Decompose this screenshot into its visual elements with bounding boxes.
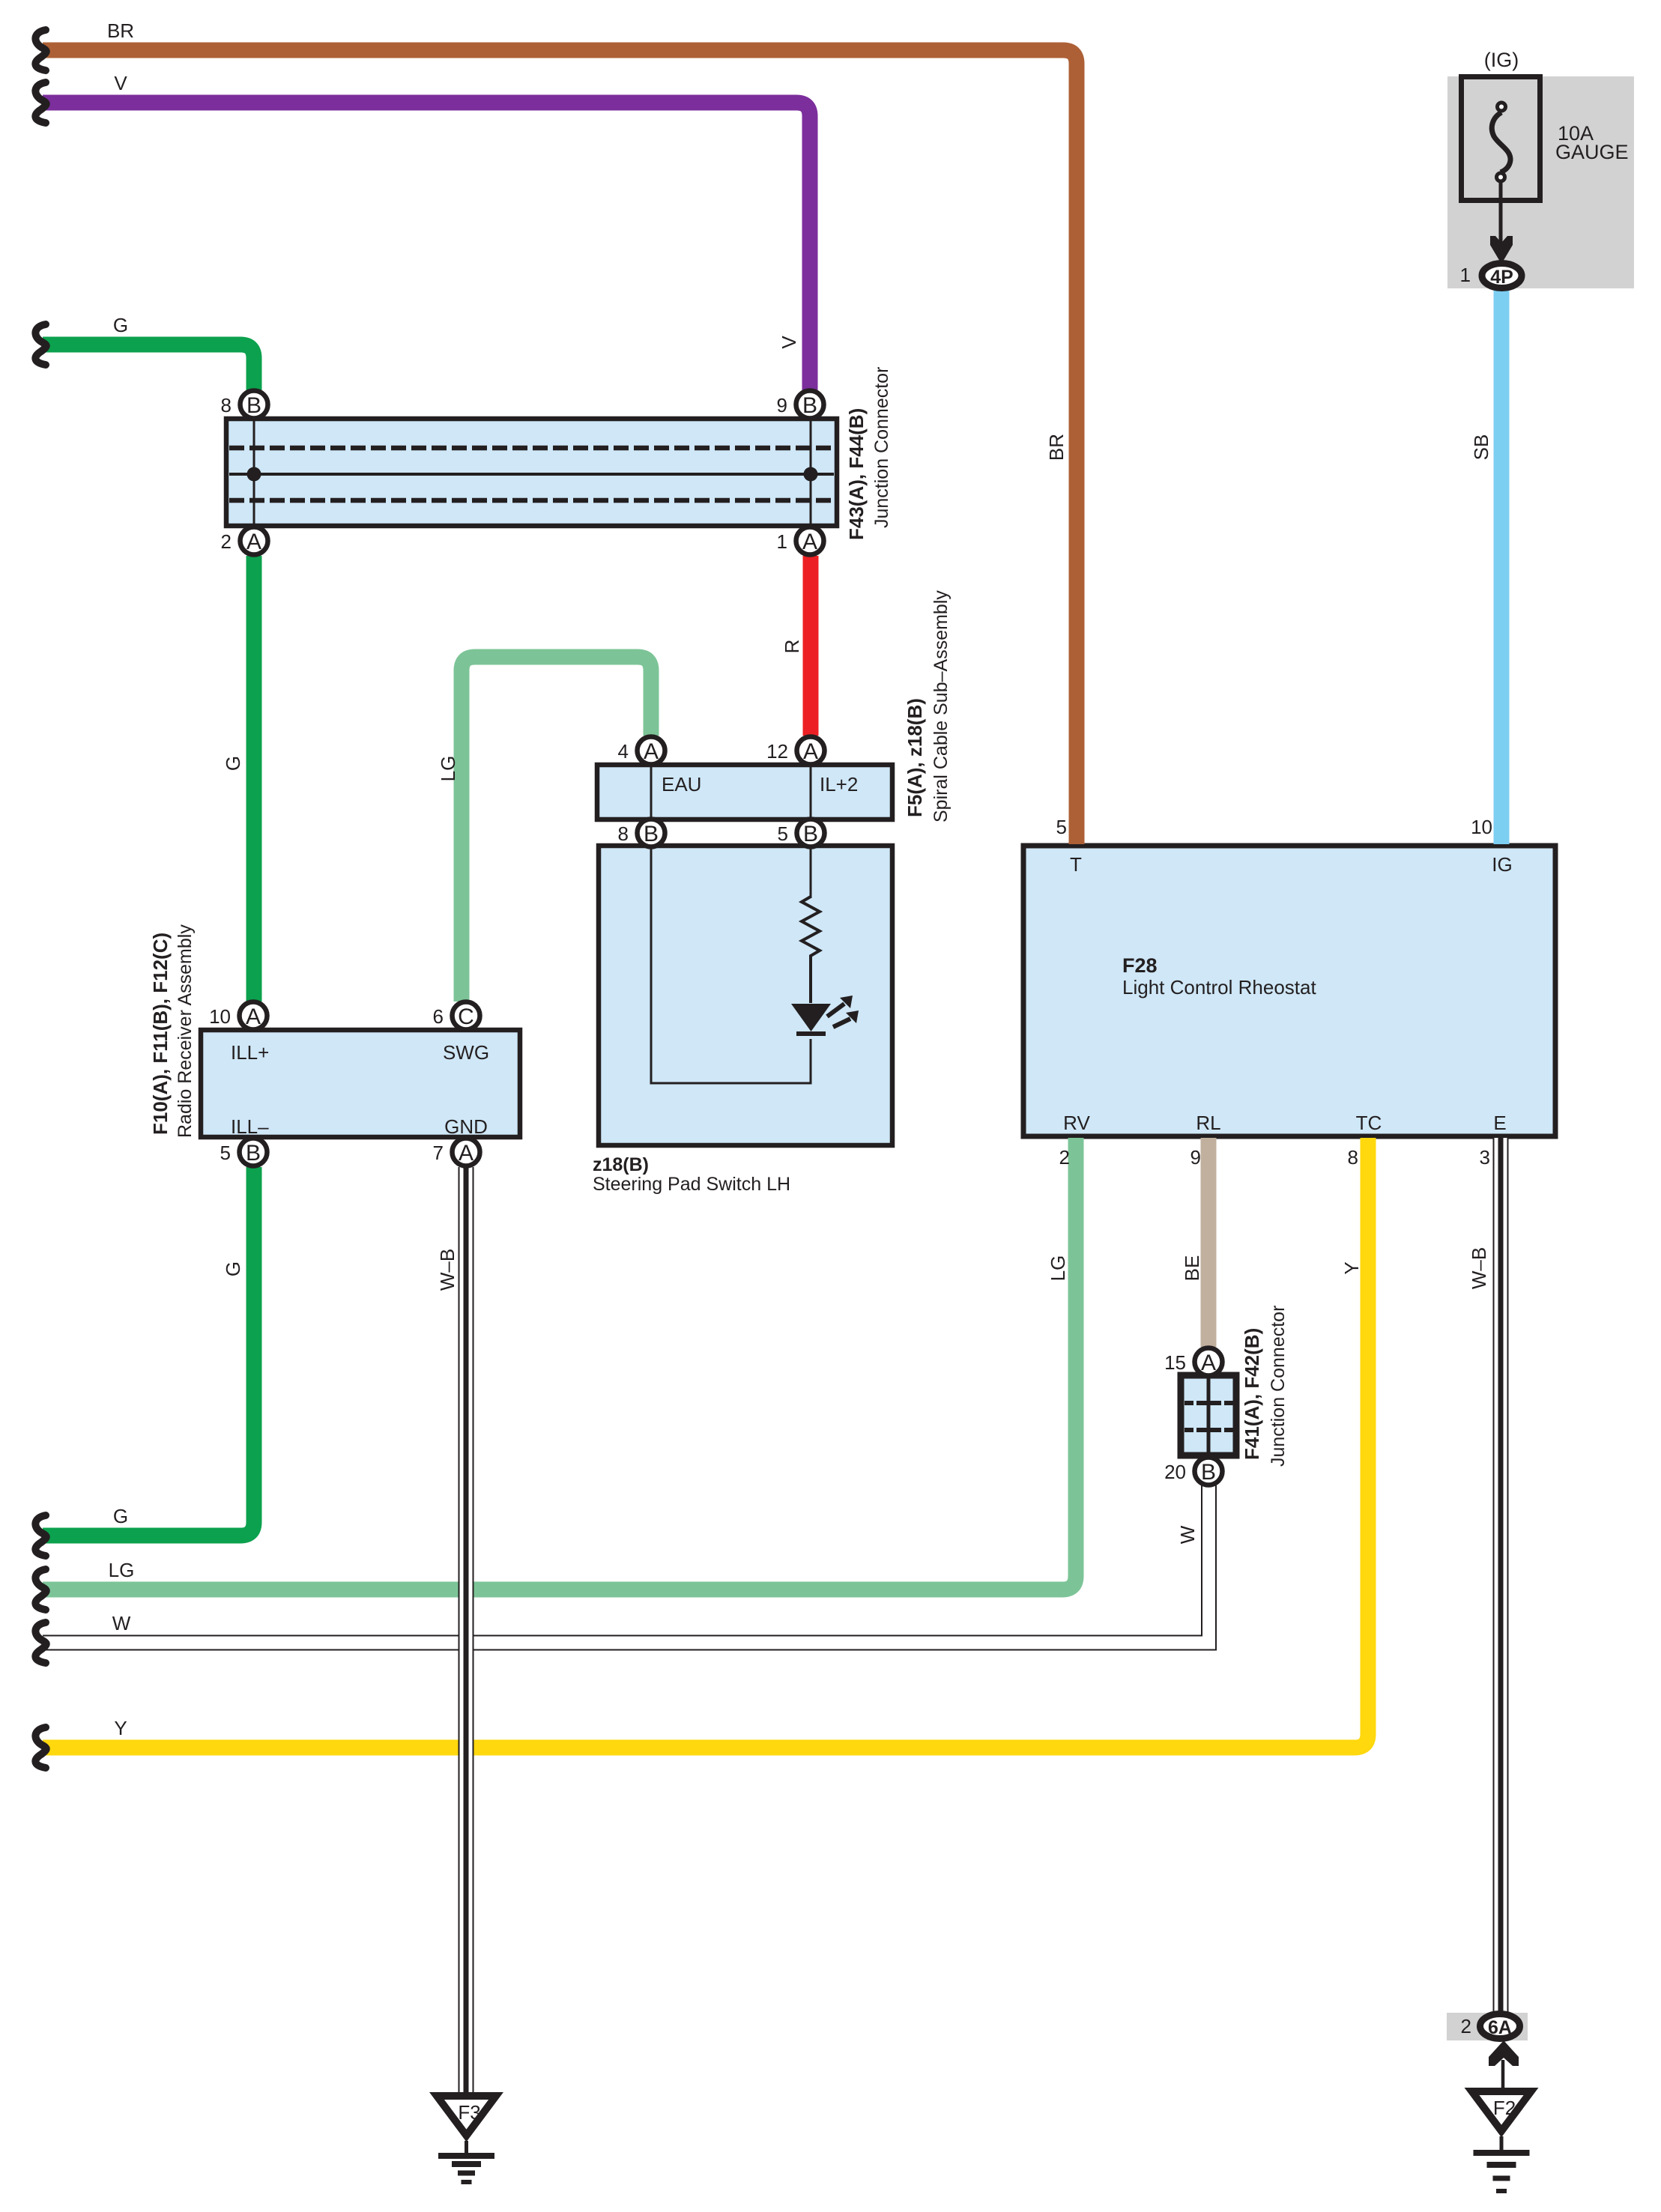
svg-text:B: B [802,393,817,418]
svg-text:20: 20 [1164,1461,1186,1483]
svg-text:IG: IG [1492,853,1512,876]
svg-text:F28: F28 [1122,954,1158,977]
svg-text:IL+2: IL+2 [820,773,858,796]
svg-text:Spiral Cable Sub–Assembly: Spiral Cable Sub–Assembly [931,590,951,822]
svg-text:15: 15 [1164,1351,1186,1374]
svg-text:Y: Y [114,1717,127,1739]
svg-text:6: 6 [433,1005,444,1028]
svg-text:A: A [803,739,818,764]
svg-text:8: 8 [221,394,232,416]
svg-text:W: W [1176,1525,1199,1544]
svg-text:F41(A), F42(B): F41(A), F42(B) [1241,1328,1263,1460]
svg-text:C: C [458,1005,474,1029]
svg-text:B: B [803,822,818,846]
svg-text:Junction Connector: Junction Connector [871,367,892,528]
svg-text:F2: F2 [1493,2097,1516,2119]
svg-text:T: T [1070,853,1082,876]
svg-text:5: 5 [1056,816,1067,838]
svg-text:1: 1 [1460,264,1471,286]
svg-text:E: E [1493,1112,1506,1134]
svg-text:BE: BE [1181,1255,1203,1282]
svg-text:10: 10 [1471,816,1492,838]
svg-text:EAU: EAU [662,773,701,796]
svg-text:G: G [222,756,244,771]
svg-text:6A: 6A [1488,2017,1512,2038]
svg-text:V: V [778,336,800,349]
svg-text:8: 8 [1348,1146,1358,1169]
svg-text:5: 5 [778,822,788,845]
svg-text:BR: BR [1045,434,1068,461]
svg-text:2: 2 [221,530,232,553]
svg-text:Radio Receiver Assembly: Radio Receiver Assembly [175,924,196,1138]
svg-text:9: 9 [777,394,787,416]
svg-text:12: 12 [766,740,788,763]
svg-text:LG: LG [1047,1255,1069,1282]
svg-text:A: A [802,530,817,554]
svg-text:F3: F3 [458,2101,480,2124]
svg-text:SWG: SWG [443,1041,489,1064]
svg-text:F43(A), F44(B): F43(A), F44(B) [845,408,868,540]
svg-text:Junction Connector: Junction Connector [1268,1306,1289,1467]
svg-text:7: 7 [433,1142,444,1164]
svg-text:A: A [246,1005,261,1029]
svg-text:B: B [246,393,261,418]
svg-text:A: A [1201,1351,1216,1375]
svg-text:G: G [113,314,128,336]
svg-text:RV: RV [1063,1112,1090,1134]
svg-text:LG: LG [109,1559,135,1581]
svg-text:W: W [112,1612,131,1634]
svg-text:W–B: W–B [436,1249,459,1291]
svg-text:B: B [644,822,659,846]
svg-text:Light Control Rheostat: Light Control Rheostat [1122,976,1316,999]
svg-text:ILL+: ILL+ [231,1041,269,1064]
svg-text:V: V [114,72,127,94]
svg-text:(IG): (IG) [1484,49,1519,71]
svg-text:B: B [1201,1460,1216,1485]
svg-text:F5(A), z18(B): F5(A), z18(B) [904,698,926,817]
svg-text:3: 3 [1480,1146,1490,1169]
svg-text:A: A [459,1141,474,1166]
svg-text:10: 10 [209,1005,231,1028]
svg-text:2: 2 [1059,1146,1070,1169]
svg-text:B: B [246,1141,261,1166]
svg-text:BR: BR [107,19,134,42]
svg-text:4P: 4P [1490,267,1513,288]
svg-text:1: 1 [777,530,787,553]
svg-text:LG: LG [437,756,459,782]
svg-text:G: G [113,1505,128,1527]
svg-text:5: 5 [220,1142,231,1164]
svg-text:TC: TC [1356,1112,1382,1134]
svg-text:4: 4 [618,740,629,763]
svg-text:RL: RL [1196,1112,1220,1134]
svg-text:z18(B): z18(B) [593,1154,649,1175]
svg-text:GAUGE: GAUGE [1555,141,1629,163]
svg-text:GND: GND [444,1115,488,1138]
svg-text:A: A [246,530,261,554]
svg-text:W–B: W–B [1468,1247,1490,1289]
svg-text:A: A [644,739,659,764]
svg-text:2: 2 [1461,2015,1471,2037]
svg-text:G: G [222,1261,244,1276]
svg-text:SB: SB [1470,434,1492,461]
svg-text:9: 9 [1190,1146,1201,1169]
svg-text:R: R [781,640,803,654]
svg-text:ILL–: ILL– [231,1115,269,1138]
svg-text:F10(A), F11(B), F12(C): F10(A), F11(B), F12(C) [149,933,172,1135]
svg-text:Steering Pad Switch LH: Steering Pad Switch LH [593,1174,790,1195]
svg-text:8: 8 [618,822,629,845]
svg-text:Y: Y [1340,1261,1363,1274]
